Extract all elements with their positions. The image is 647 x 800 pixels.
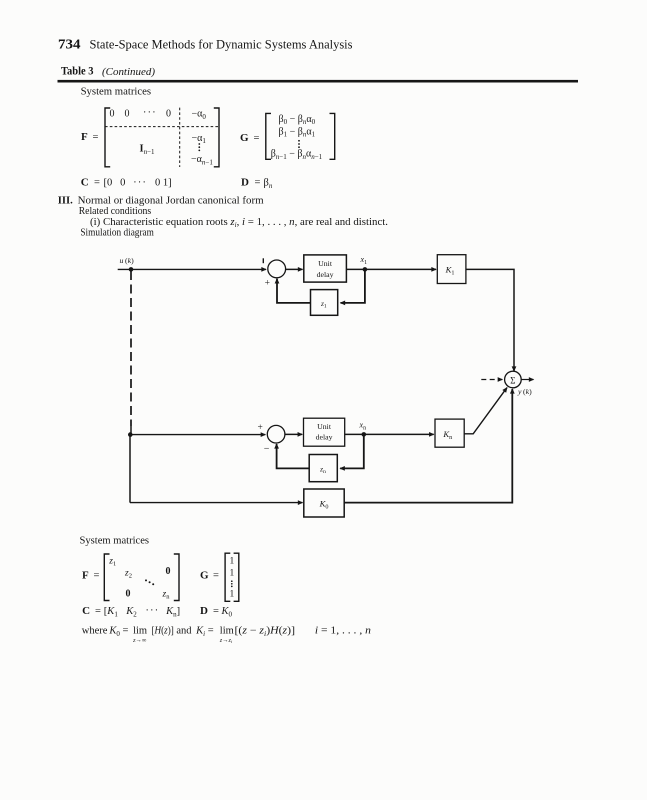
wire: K1 output to sigma xyxy=(466,269,514,371)
svg-text:z1: z1 xyxy=(108,556,116,567)
wire: K0 output up to sigma xyxy=(344,389,512,503)
wire: xn feedback down-left into zn xyxy=(340,434,364,468)
svg-text:=: = xyxy=(93,132,99,143)
node: input junction dot xyxy=(129,267,134,272)
svg-text:0: 0 xyxy=(126,588,131,599)
svg-text:=: = xyxy=(94,570,100,581)
svg-text:1: 1 xyxy=(230,556,235,566)
svg-text:Table 3: Table 3 xyxy=(61,65,94,77)
summing junction S1 xyxy=(268,260,286,278)
svg-text:1: 1 xyxy=(230,589,235,599)
svg-text:0: 0 xyxy=(110,108,115,119)
svg-text:K0 =: K0 = xyxy=(108,626,128,638)
svg-text:=: = xyxy=(255,178,261,189)
svg-text:Unit: Unit xyxy=(317,422,332,431)
summing junction S2 xyxy=(267,425,285,443)
svg-text:Ki =: Ki = xyxy=(195,626,214,638)
node: x1 junction dot xyxy=(363,267,368,272)
svg-text:(k): (k) xyxy=(125,256,134,265)
svg-text:0: 0 xyxy=(166,566,171,577)
svg-text:K0: K0 xyxy=(221,606,233,618)
svg-text:−αn−1: −αn−1 xyxy=(191,154,213,166)
svg-text:[(z − zi)H(z)]: [(z − zi)H(z)] xyxy=(235,626,296,638)
svg-text:Related conditions: Related conditions xyxy=(79,206,152,217)
svg-text:F: F xyxy=(81,131,88,143)
wire: x1 feedback down-left into z1 xyxy=(341,269,365,303)
svg-text:and: and xyxy=(176,626,192,637)
wire: U2 output rail to Kn xyxy=(345,433,434,435)
svg-text:β1 − βnα1: β1 − βnα1 xyxy=(279,126,316,138)
svg-text:=: = xyxy=(213,606,219,617)
svg-text:+: + xyxy=(258,423,263,433)
wire: input top rail xyxy=(118,268,266,270)
svg-text:F: F xyxy=(82,569,89,581)
svg-text:K2: K2 xyxy=(125,606,137,618)
sign tick above S1 xyxy=(262,258,264,263)
svg-text:Normal or diagonal Jordan cano: Normal or diagonal Jordan canonical form xyxy=(78,195,265,206)
block: gain Kn xyxy=(435,419,464,447)
svg-text:734: 734 xyxy=(58,37,81,52)
summing junction sigma xyxy=(505,371,522,388)
svg-text:i = 1, . . . , n: i = 1, . . . , n xyxy=(315,626,371,637)
block: gain K0 xyxy=(304,489,344,517)
svg-text:=: = xyxy=(254,133,260,144)
svg-text:System matrices: System matrices xyxy=(81,87,152,98)
svg-text:[0 0 ··· 0 1]: [0 0 ··· 0 1] xyxy=(104,178,172,189)
svg-text:delay: delay xyxy=(317,270,334,279)
svg-text:0: 0 xyxy=(166,108,171,119)
wire: S1 to unit delay U1 xyxy=(286,268,303,270)
svg-text:zn: zn xyxy=(162,589,171,600)
svg-text:···: ··· xyxy=(143,107,157,118)
svg-text:Simulation diagram: Simulation diagram xyxy=(80,227,154,238)
block: z1 feedback gain xyxy=(311,290,338,316)
svg-text:y: y xyxy=(517,387,522,396)
svg-text:System matrices: System matrices xyxy=(80,536,150,547)
wire: sigma output y(k) xyxy=(521,379,533,381)
svg-text:C: C xyxy=(82,605,90,617)
svg-text:In−1: In−1 xyxy=(140,144,156,157)
svg-text:Σ: Σ xyxy=(510,375,515,385)
svg-text:z2: z2 xyxy=(124,568,132,579)
svg-text:βn: βn xyxy=(264,178,273,190)
wire: left vertical dashed xyxy=(130,271,132,426)
svg-text:D: D xyxy=(200,605,208,617)
svg-text:−α0: −α0 xyxy=(192,109,207,121)
svg-text:z→∞: z→∞ xyxy=(132,637,147,644)
node: bottom branch junction dot xyxy=(128,432,133,437)
svg-text:State-Space Methods for Dynami: State-Space Methods for Dynamic Systems … xyxy=(90,38,353,52)
svg-text:lim: lim xyxy=(133,626,147,637)
block: zn feedback gain xyxy=(309,455,337,482)
svg-text:u: u xyxy=(120,256,124,265)
svg-text:+: + xyxy=(265,279,270,289)
svg-text:1: 1 xyxy=(230,568,235,578)
block: gain K1 xyxy=(437,255,466,284)
svg-text:=: = xyxy=(213,570,219,581)
node: xn junction dot xyxy=(362,432,367,437)
svg-text:(Continued): (Continued) xyxy=(102,66,155,78)
wire: left vertical solid xyxy=(130,426,131,503)
svg-text:=: = xyxy=(94,178,100,189)
wire: dashed stub into sigma xyxy=(481,379,502,381)
wire: S2 to unit delay U2 xyxy=(285,433,302,435)
svg-text:C: C xyxy=(81,177,89,189)
svg-text:III.: III. xyxy=(58,195,73,206)
svg-text:[H(z)]: [H(z)] xyxy=(152,626,174,637)
svg-text:G: G xyxy=(240,132,249,144)
svg-text:···: ··· xyxy=(146,605,160,616)
wire: z1 output to S1 bottom xyxy=(277,279,311,303)
svg-text:z→zi: z→zi xyxy=(219,637,233,644)
svg-text:Kn]: Kn] xyxy=(165,606,180,618)
wire: zn output to S2 bottom xyxy=(277,444,310,468)
svg-text:x1: x1 xyxy=(360,255,368,266)
svg-text:delay: delay xyxy=(316,433,333,442)
block: unit delay U1 xyxy=(304,255,347,282)
wire: bottom line into K0 xyxy=(130,502,303,504)
wire: U1 output rail to K1 xyxy=(346,268,436,270)
wire: bottom rail into S2 xyxy=(130,434,265,436)
svg-text:lim: lim xyxy=(220,626,234,637)
svg-text:xn: xn xyxy=(359,421,367,432)
svg-text:β0 − βnα0: β0 − βnα0 xyxy=(279,114,316,126)
svg-text:=: = xyxy=(95,606,101,617)
svg-text:βn−1 − βnαn−1: βn−1 − βnαn−1 xyxy=(271,149,323,161)
block: unit delay U2 xyxy=(304,418,345,446)
svg-text:(k): (k) xyxy=(523,387,532,396)
svg-text:D: D xyxy=(241,177,249,189)
svg-text:where: where xyxy=(82,626,108,637)
svg-text:Unit: Unit xyxy=(318,259,333,268)
svg-text:G: G xyxy=(200,569,209,581)
wire: Kn output diagonal to sigma xyxy=(464,388,507,434)
table rule xyxy=(58,80,579,83)
svg-text:[K1: [K1 xyxy=(104,606,119,618)
svg-text:−: − xyxy=(264,444,270,455)
svg-text:0: 0 xyxy=(125,108,130,119)
svg-text:−α1: −α1 xyxy=(192,133,207,145)
